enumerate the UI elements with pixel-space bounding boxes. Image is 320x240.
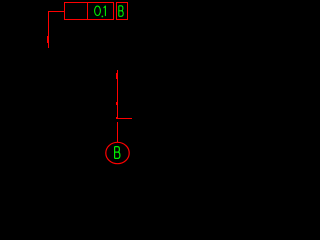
value label 0.1 (95, 6, 106, 17)
pin box B (117, 3, 128, 20)
wire: port pin segment down to circle (117, 122, 118, 142)
port name label B (in circle) (115, 147, 120, 159)
wire: horizontal branch to the right (117, 118, 132, 119)
component body box (capacitor, value 0.1) (65, 3, 114, 20)
arrowhead on left vertical wire (47, 36, 49, 43)
wire: horizontal stub into component left pin (48, 11, 64, 12)
wire: vertical segment going down from stub (48, 11, 49, 48)
arrowhead blob at wire corner (116, 117, 118, 119)
pin name label B (in pin box) (119, 6, 123, 16)
off-page port circle B (106, 142, 129, 163)
arrowhead (up) on middle wire (116, 73, 118, 79)
junction blob on middle wire (116, 102, 118, 105)
wire: middle vertical wire with up arrow (117, 70, 118, 119)
component body divider line (87, 2, 88, 20)
